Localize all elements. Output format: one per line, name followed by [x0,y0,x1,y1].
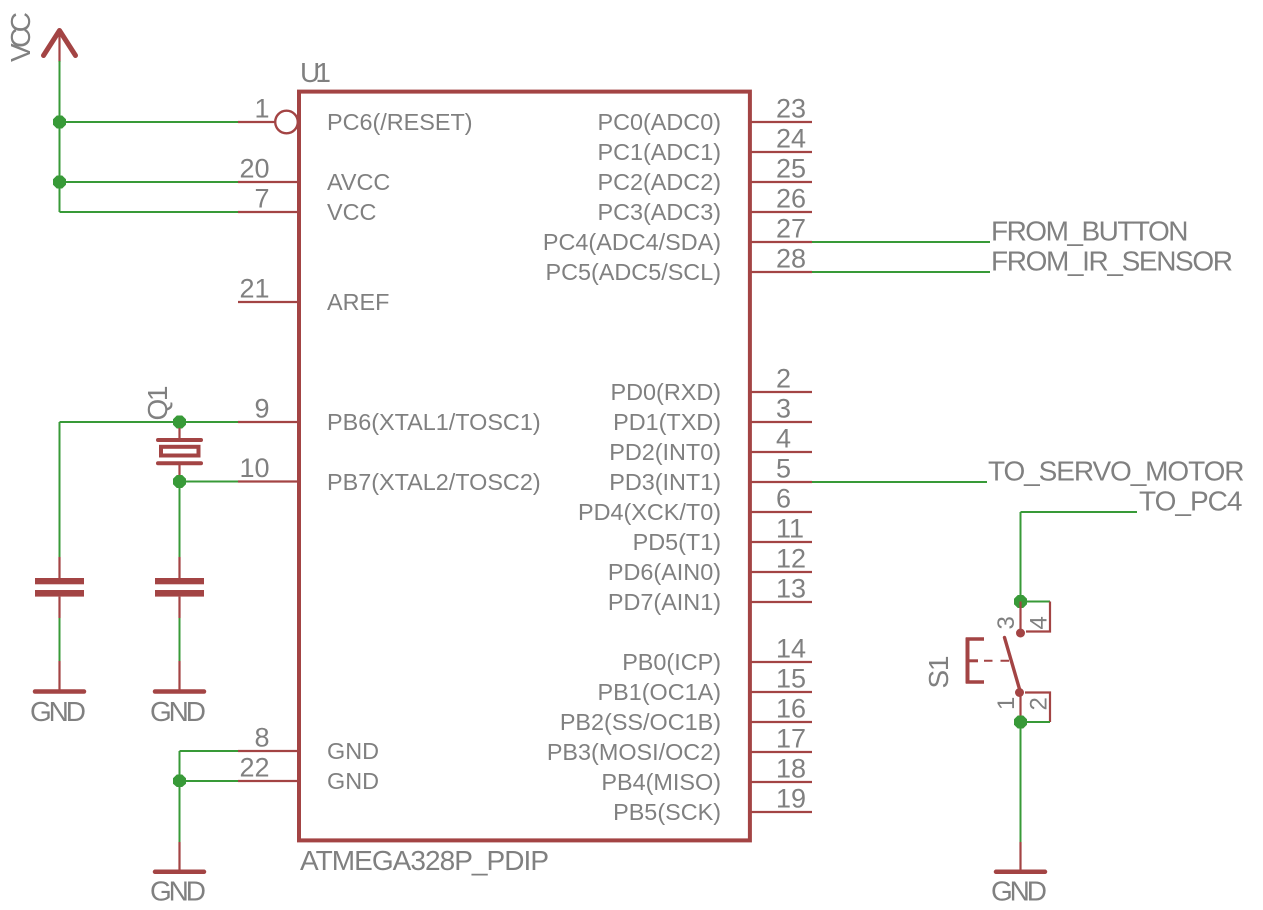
svg-text:GND: GND [327,768,379,794]
svg-text:27: 27 [776,214,806,244]
svg-text:PC1(ADC1): PC1(ADC1) [598,139,721,165]
pin 4 bracket [1026,602,1050,632]
svg-text:PB3(MOSI/OC2): PB3(MOSI/OC2) [547,739,721,765]
wire to pin 7 [60,211,239,213]
pin 21 stub [238,301,299,303]
svg-text:PB0(ICP): PB0(ICP) [622,649,721,675]
pin 5 stub [750,481,812,483]
capacitor C2 [155,557,204,618]
svg-text:16: 16 [776,694,806,724]
wire VCC vertical bus [59,61,61,212]
svg-text:26: 26 [776,184,806,214]
wire stub pin4 top [1021,601,1051,603]
crystal net: wire pin9 row [60,421,239,423]
svg-text:S1: S1 [923,656,954,689]
wire vertical 751-781 [179,751,181,781]
svg-text:GND: GND [327,738,379,764]
junction on VCC net at pin20 wire [53,176,66,189]
GND net for pins 8/22: wire pin8 [180,750,239,752]
svg-text:4: 4 [776,424,791,454]
svg-text:U1: U1 [300,57,331,88]
svg-text:15: 15 [776,664,806,694]
junction at pin22 row [173,775,186,788]
wire stub pin2 bottom [1021,721,1051,723]
svg-text:4: 4 [1026,616,1053,629]
pin 3 stub [750,421,812,423]
svg-text:8: 8 [254,723,269,753]
svg-text:PB1(OC1A): PB1(OC1A) [598,679,722,705]
svg-text:25: 25 [776,154,806,184]
svg-text:17: 17 [776,724,806,754]
pin 2 bracket [1025,693,1050,723]
ground symbol under C2 [155,661,204,692]
capacitor C1 [35,557,84,618]
pin 18 stub [750,781,812,783]
dashed actuator link [984,660,1011,662]
svg-text:GND: GND [30,696,86,727]
pin 20 stub [238,181,299,183]
svg-text:3: 3 [776,394,791,424]
switch lever [1005,638,1021,693]
svg-text:PB7(XTAL2/TOSC2): PB7(XTAL2/TOSC2) [327,469,541,495]
net TO_PC4 wire horizontal [1021,511,1138,513]
net FROM_IR_SENSOR wire [812,271,990,273]
svg-text:Q1: Q1 [142,386,173,421]
svg-text:14: 14 [776,634,806,664]
crystal Q1 [158,428,201,476]
svg-text:3: 3 [993,616,1020,629]
svg-text:PD6(AIN0): PD6(AIN0) [608,559,721,585]
svg-text:PD2(INT0): PD2(INT0) [609,439,721,465]
pin 9 stub [238,421,299,423]
pin 3 lead [1019,602,1021,631]
svg-text:TO_SERVO_MOTOR: TO_SERVO_MOTOR [988,456,1245,487]
svg-text:PD5(T1): PD5(T1) [633,529,721,555]
wire C2 to GND [179,618,181,661]
svg-text:18: 18 [776,754,806,784]
svg-text:19: 19 [776,784,806,814]
svg-text:GND: GND [991,876,1047,907]
svg-text:11: 11 [776,514,804,544]
junction at Q1 top [173,416,186,429]
svg-text:23: 23 [776,94,806,124]
svg-text:5: 5 [776,454,791,484]
IC U1 ATMEGA328P_PDIP body [299,92,750,841]
pin 23 stub [750,121,812,123]
svg-text:1: 1 [254,94,269,124]
svg-text:PD4(XCK/T0): PD4(XCK/T0) [578,499,721,525]
svg-text:PD1(TXD): PD1(TXD) [613,409,721,435]
pin 13 stub [750,601,812,603]
pin 28 stub [750,271,812,273]
junction on VCC net at pin1 wire [53,116,66,129]
wire pin10 row [180,481,239,483]
pin 14 stub [750,661,812,663]
pin 16 stub [750,721,812,723]
svg-text:FROM_BUTTON: FROM_BUTTON [991,216,1189,247]
svg-text:22: 22 [239,753,269,783]
pin 17 stub [750,751,812,753]
svg-text:13: 13 [776,574,806,604]
pin 11 stub [750,541,812,543]
svg-text:2: 2 [776,364,791,394]
svg-text:TO_PC4: TO_PC4 [1139,486,1243,517]
wire to pin 1 [60,121,239,123]
svg-text:21: 21 [239,274,269,304]
svg-text:6: 6 [776,484,791,514]
wire left drop to C1 [59,422,61,559]
svg-text:28: 28 [776,244,806,274]
svg-text:PC2(ADC2): PC2(ADC2) [598,169,721,195]
ground symbol under switch [996,842,1045,872]
svg-text:VCC: VCC [327,199,376,225]
pin 7 stub [238,211,299,213]
junction at switch bottom [1014,716,1027,729]
junction at switch top [1014,595,1027,608]
contact dot bottom [1015,688,1024,697]
pin 19 stub [750,811,812,813]
svg-text:PD7(AIN1): PD7(AIN1) [608,589,721,615]
svg-text:PD3(INT1): PD3(INT1) [609,469,721,495]
svg-text:9: 9 [254,394,269,424]
svg-text:7: 7 [254,184,269,214]
pin 15 stub [750,691,812,693]
svg-text:10: 10 [239,453,269,483]
svg-text:ATMEGA328P_PDIP: ATMEGA328P_PDIP [300,845,549,876]
pin 4 stub [750,451,812,453]
ground symbol under C1 [35,661,84,692]
pin 22 stub [238,780,299,782]
pin 25 stub [750,181,812,183]
wire C1 to GND [59,618,61,661]
net FROM_BUTTON wire [812,241,990,243]
wire TO_PC4 vertical to switch [1020,512,1022,602]
svg-text:20: 20 [239,154,269,184]
pin 1 lead bottom [1019,694,1021,722]
wire pin22 [180,780,239,782]
svg-text:12: 12 [776,544,806,574]
ground symbol below IC [155,842,204,872]
pin 12 stub [750,571,812,573]
svg-text:1: 1 [993,697,1020,710]
wire switch to GND [1020,722,1022,842]
svg-text:PB4(MISO): PB4(MISO) [601,769,721,795]
pin 10 stub [238,480,299,482]
svg-text:24: 24 [776,124,806,154]
pin 8 stub [238,750,299,752]
svg-text:AVCC: AVCC [327,169,390,195]
pin 26 stub [750,211,812,213]
wire to pin 20 [60,181,239,183]
junction at Q1 bottom [173,475,186,488]
svg-text:PB6(XTAL1/TOSC1): PB6(XTAL1/TOSC1) [327,409,541,435]
pin 27 stub [750,241,812,243]
svg-text:2: 2 [1026,697,1053,710]
svg-text:PC4(ADC4/SDA): PC4(ADC4/SDA) [543,229,721,255]
net TO_SERVO_MOTOR wire [812,481,987,483]
actuator bracket [966,638,984,684]
pin 1 PC6(/RESET) stub with bubble [238,111,298,134]
svg-text:GND: GND [150,696,206,727]
svg-text:PB2(SS/OC1B): PB2(SS/OC1B) [560,709,721,735]
svg-text:PC6(/RESET): PC6(/RESET) [327,109,473,135]
svg-text:PC3(ADC3): PC3(ADC3) [598,199,721,225]
svg-text:GND: GND [150,876,206,907]
svg-text:PB5(SCK): PB5(SCK) [613,799,721,825]
svg-text:VCC: VCC [5,12,36,62]
supply symbol VCC [44,31,76,63]
svg-text:PC0(ADC0): PC0(ADC0) [598,109,721,135]
svg-text:AREF: AREF [327,289,389,315]
wire drop to C2 [179,482,181,560]
svg-text:PC5(ADC5/SCL): PC5(ADC5/SCL) [546,259,721,285]
svg-text:FROM_IR_SENSOR: FROM_IR_SENSOR [991,246,1233,277]
pin 6 stub [750,511,812,513]
svg-text:PD0(RXD): PD0(RXD) [611,379,721,405]
wire down to ground [179,781,181,842]
pin 24 stub [750,151,812,153]
pin 2 stub [750,391,812,393]
contact dot top [1016,629,1025,638]
